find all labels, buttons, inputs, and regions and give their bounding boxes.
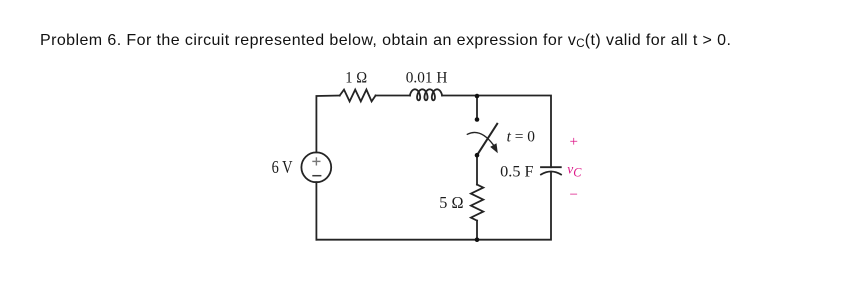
capacitor C1 top plate [541,166,561,168]
title text [40,33,731,49]
voltage source plus sign [312,157,320,165]
voltage source minus sign [312,175,321,177]
svg-text:6 V: 6 V [272,157,293,177]
wire: left side below source [315,182,317,240]
wire: top-left segment [316,96,339,153]
resistor R2 5ohm zigzag [471,185,483,221]
wire: between resistor and inductor [376,95,410,97]
wire: switch to resistor R2 [476,155,478,184]
capacitor C1 bottom curved plate [541,172,561,175]
wire: capacitor to bottom-right corner and bottom side [316,172,551,240]
switch arc arrow [467,132,493,145]
svg-text:vC: vC [567,161,582,179]
switch S1 blade [477,124,497,155]
svg-text:0.5 F: 0.5 F [500,163,533,180]
svg-text:t = 0: t = 0 [507,129,535,146]
switch top contact dot [475,117,480,122]
inductor L1 0.01H coil [410,89,442,100]
wire: inductor to top-right corner and down right side [442,96,551,168]
resistor R1 1ohm zigzag [340,90,376,102]
switch bottom contact dot [475,153,480,158]
node A junction dot [475,94,480,99]
svg-text:5 Ω: 5 Ω [439,193,463,212]
svg-text:0.01 H: 0.01 H [406,70,448,87]
wire: resistor R2 to bottom node [476,221,478,240]
switch arrowhead [490,143,498,153]
voltage source V1 circle [301,152,331,182]
bottom node junction dot [475,237,480,242]
svg-text:+: + [570,134,578,150]
svg-text:−: − [570,187,578,203]
svg-text:1 Ω: 1 Ω [345,70,367,87]
wire: node A stub down to switch [476,96,478,120]
